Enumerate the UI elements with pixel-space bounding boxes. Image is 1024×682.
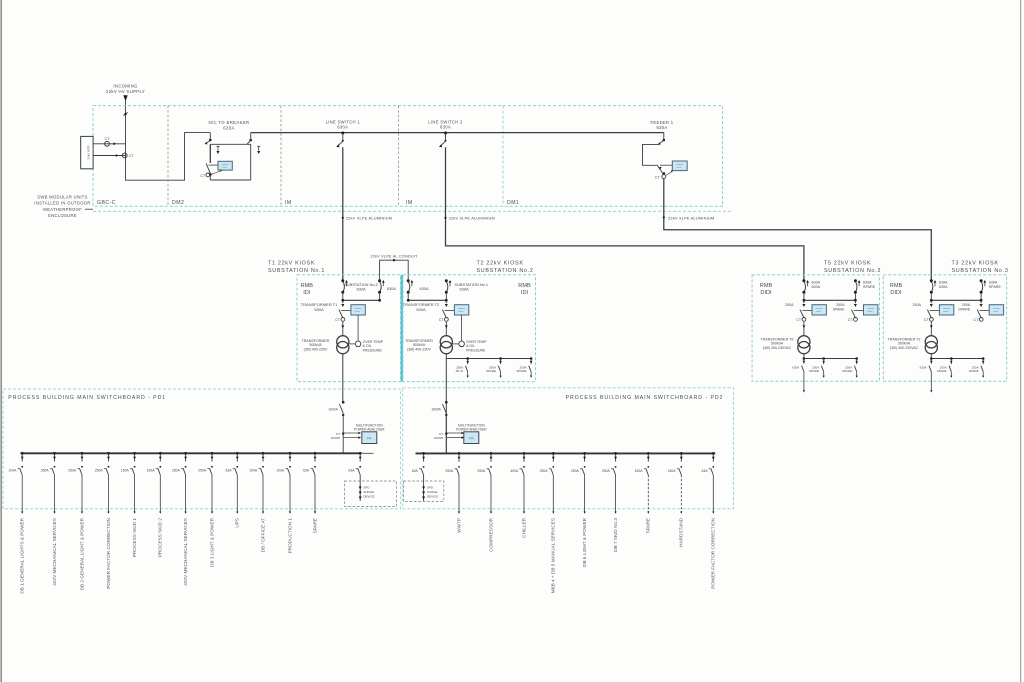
svg-text:PRESSURE: PRESSURE: [363, 348, 383, 352]
metering wire lower: [93, 155, 125, 157]
feeder 1 CT: [663, 172, 666, 175]
svg-text:(3Ø) 400-230VAC: (3Ø) 400-230VAC: [763, 346, 792, 350]
T2 LV feeder 1: [466, 357, 469, 360]
svg-text:INCOMING: INCOMING: [113, 84, 138, 89]
feeder 1 relay: [672, 161, 687, 171]
svg-text:250A: 250A: [172, 469, 181, 473]
svg-text:400A: 400A: [510, 469, 519, 473]
svg-text:1600A: 1600A: [431, 407, 441, 411]
PD2 feeder 7: [647, 452, 650, 455]
svg-text:POWER FACTOR CORRECTION: POWER FACTOR CORRECTION: [711, 518, 716, 589]
PD1 feeder 2: [53, 452, 56, 455]
section divider GBC-C/DM2: [167, 106, 169, 207]
svg-text:DB 3 LIGHT & POWER: DB 3 LIGHT & POWER: [209, 517, 214, 566]
svg-text:IDI: IDI: [303, 290, 311, 296]
svg-text:250A: 250A: [540, 469, 549, 473]
PD1 feeder 1: [21, 452, 24, 455]
svg-text:T3 22kV KIOSK: T3 22kV KIOSK: [952, 260, 999, 266]
svg-text:160A: 160A: [635, 469, 644, 473]
svg-text:SPARE: SPARE: [863, 285, 876, 289]
feeder 1 breaker blade: [657, 165, 664, 175]
svg-text:SPARE: SPARE: [937, 369, 947, 373]
wire to T1 substation: [342, 147, 344, 280]
svg-text:CT: CT: [105, 137, 111, 141]
RMU switchgear enclosure box: [93, 106, 723, 207]
svg-text:SPARE: SPARE: [809, 369, 819, 373]
svg-text:250A: 250A: [41, 469, 50, 473]
svg-text:SPARE: SPARE: [958, 308, 971, 312]
DM2 CT: [206, 173, 210, 177]
PD1 surge protection device: [359, 475, 361, 501]
wire T5 to transformer: [803, 321, 805, 335]
DM2 bottom loop bus: [210, 179, 250, 181]
incoming supply arrow: [123, 95, 127, 101]
svg-text:RMB: RMB: [890, 283, 903, 289]
paper left edge: [0, 0, 2, 682]
T3 switch left: [930, 279, 933, 282]
svg-text:(3Ø) 400-230VAC: (3Ø) 400-230VAC: [890, 346, 919, 350]
svg-text:250A: 250A: [571, 469, 580, 473]
svg-text:DM1: DM1: [507, 200, 519, 206]
svg-text:250A: 250A: [962, 303, 971, 307]
svg-text:1600A: 1600A: [328, 407, 338, 411]
T2 ring switch right: [445, 279, 448, 282]
svg-text:POWER ANALYSER: POWER ANALYSER: [456, 427, 487, 431]
svg-text:63A: 63A: [701, 469, 708, 473]
feeder 1 disconnector: [663, 133, 665, 140]
wire T1-T2 ring conduit: [380, 260, 409, 281]
wire T3 to transformer: [930, 321, 932, 335]
DM2 withdraw arrow left: [216, 145, 219, 147]
svg-text:PROCESS SKID 2: PROCESS SKID 2: [158, 518, 163, 557]
svg-text:630A: 630A: [387, 286, 396, 291]
svg-text:POWER FACTOR CORRECTION: POWER FACTOR CORRECTION: [106, 518, 111, 589]
svg-text:1600/5: 1600/5: [331, 436, 341, 440]
metering unit box: [81, 136, 93, 168]
svg-text:SUBSTATION No.3: SUBSTATION No.3: [824, 268, 881, 274]
svg-text:250A: 250A: [198, 469, 207, 473]
svg-text:100A: 100A: [276, 469, 285, 473]
svg-text:PA: PA: [367, 437, 372, 441]
svg-text:22kV HV SUPPLY: 22kV HV SUPPLY: [106, 89, 145, 94]
PD1 incoming switch: [342, 401, 345, 404]
svg-text:RMB: RMB: [518, 283, 531, 289]
svg-text:250A: 250A: [836, 303, 845, 307]
svg-text:DIDI: DIDI: [890, 290, 902, 296]
svg-text:250A: 250A: [95, 469, 104, 473]
svg-text:UPS: UPS: [235, 518, 240, 528]
T5 LV feeder 2: [822, 357, 825, 360]
PD2 feeder 9: [712, 452, 715, 455]
wire to T3 substation: [664, 179, 932, 281]
T3 LV feeder 3: [982, 357, 985, 360]
T3 LV feeder 2: [950, 357, 953, 360]
PD1 feeder 11: [289, 452, 292, 455]
svg-text:WEATHERPROOF: WEATHERPROOF: [43, 207, 82, 212]
svg-text:4P+N: 4P+N: [456, 369, 464, 373]
DM2 disconnector left: [209, 133, 211, 140]
T2 oil sensor: [459, 341, 465, 347]
svg-text:CT: CT: [335, 318, 341, 322]
svg-text:ENCLOSURE: ENCLOSURE: [48, 213, 77, 218]
svg-text:63A: 63A: [303, 469, 310, 473]
wire T1 to PD1: [342, 354, 344, 402]
svg-text:250A: 250A: [912, 303, 921, 307]
svg-text:160A: 160A: [147, 469, 156, 473]
svg-text:22kV MTR: 22kV MTR: [86, 145, 90, 160]
PD2 main bus: [416, 452, 716, 454]
svg-text:CT: CT: [129, 154, 135, 158]
svg-text:160A: 160A: [668, 469, 677, 473]
line switch 1: [341, 132, 344, 135]
svg-text:630A: 630A: [314, 307, 324, 312]
svg-text:PROCESS BUILDING MAIN SWITCHBO: PROCESS BUILDING MAIN SWITCHBOARD - PD1: [8, 395, 166, 401]
svg-text:100A: 100A: [249, 469, 258, 473]
svg-text:HARDSTAND: HARDSTAND: [679, 517, 684, 546]
T5 substation box: [752, 275, 879, 381]
CT lower: [116, 154, 119, 157]
DM2 disconnector right: [249, 139, 252, 142]
svg-text:SPARE: SPARE: [486, 369, 496, 373]
T5 LV outgoing: [803, 357, 806, 360]
T3 LV outgoing: [930, 357, 933, 360]
PD1 analyser arrows: [342, 432, 344, 434]
svg-text:63A: 63A: [348, 469, 355, 473]
PD2 feeder 2: [490, 452, 493, 455]
svg-text:IM: IM: [406, 200, 413, 206]
svg-text:SWB MODULAR UNITS: SWB MODULAR UNITS: [37, 194, 87, 199]
PD1 feeder 9: [236, 452, 239, 455]
PD1 feeder 6: [159, 452, 162, 455]
PD2 feeder 5: [583, 452, 586, 455]
svg-text:CT: CT: [974, 318, 980, 322]
svg-text:GBC-C: GBC-C: [97, 200, 116, 206]
PD2 switchboard box: [403, 388, 734, 509]
svg-text:DB / OFFICE AT: DB / OFFICE AT: [260, 518, 265, 552]
PD1 power analyser: [362, 432, 377, 444]
T5 LV bus: [803, 354, 805, 359]
transformer T5: [798, 336, 810, 348]
svg-text:22kV XLPE AL CONDUIT: 22kV XLPE AL CONDUIT: [370, 254, 418, 258]
svg-text:630A: 630A: [792, 365, 799, 369]
svg-text:630A: 630A: [812, 285, 821, 289]
DM2 breaker truck: [209, 144, 211, 163]
DM2 withdraw arrow right: [257, 145, 260, 147]
svg-text:160A: 160A: [121, 469, 130, 473]
svg-text:PROCESS SKID 1: PROCESS SKID 1: [132, 518, 137, 557]
svg-text:SPARE: SPARE: [833, 308, 846, 312]
T2 transformer chain: [445, 300, 447, 303]
T1/T2 shared box edge: [401, 275, 403, 382]
T1 oil sensor: [355, 341, 361, 347]
PD1 feeder 5: [133, 452, 136, 455]
T3 switch right: [980, 279, 983, 282]
PD1 feeder 8: [211, 452, 214, 455]
PD1 SPD feeder: [359, 452, 362, 455]
svg-text:630A: 630A: [440, 125, 451, 130]
svg-text:630A: 630A: [223, 125, 234, 130]
svg-text:250A: 250A: [785, 303, 794, 307]
svg-text:IM: IM: [285, 200, 292, 206]
PD2 feeder 3: [523, 452, 526, 455]
svg-text:630A: 630A: [920, 365, 927, 369]
svg-text:DM2: DM2: [172, 200, 184, 206]
svg-text:400V MECHANICAL SERVICES: 400V MECHANICAL SERVICES: [52, 518, 57, 586]
section divider IM/IM: [398, 106, 400, 207]
svg-text:630A: 630A: [337, 125, 348, 130]
PD1 main bus: [21, 452, 362, 454]
T2 ring switch left: [407, 279, 410, 282]
PD2 analyser arrows: [445, 432, 447, 434]
PD1 feeder 4: [107, 452, 110, 455]
svg-text:DEVICE: DEVICE: [427, 495, 438, 499]
svg-text:COMPRESSOR: COMPRESSOR: [488, 517, 493, 551]
T3 transformer chain right spare: [980, 300, 982, 303]
T1 substation box: [297, 275, 401, 382]
svg-text:630A: 630A: [460, 287, 469, 292]
PD2 SPD sub-box: [403, 481, 443, 501]
svg-text:DB 1 GENERAL LIGHTS & POWER: DB 1 GENERAL LIGHTS & POWER: [20, 517, 25, 593]
wire incoming riser: [126, 101, 211, 181]
svg-text:T2 22kV KIOSK: T2 22kV KIOSK: [477, 260, 524, 266]
T2 relay to sensor wire: [461, 315, 463, 341]
svg-text:250A: 250A: [602, 469, 611, 473]
T3 substation box: [883, 275, 1006, 381]
svg-text:T5 22kV KIOSK: T5 22kV KIOSK: [824, 260, 871, 266]
svg-text:250A: 250A: [445, 469, 454, 473]
svg-text:T1 22kV KIOSK: T1 22kV KIOSK: [268, 260, 315, 266]
svg-text:SPARE: SPARE: [646, 518, 651, 534]
T3 LV bus: [930, 354, 932, 359]
svg-text:63A: 63A: [225, 469, 232, 473]
note leader line: [85, 208, 93, 210]
transformer T2: [440, 336, 452, 348]
svg-text:SPARE: SPARE: [842, 369, 852, 373]
CT upper: [105, 141, 110, 146]
PD1 switchboard box: [3, 389, 401, 509]
PD1 SPD sub-box: [345, 481, 397, 507]
svg-text:250A: 250A: [477, 469, 486, 473]
PD2 surge protection device: [423, 475, 425, 501]
T3 transformer chain left: [930, 300, 932, 303]
wire T2 to transformer: [445, 321, 447, 335]
svg-text:DB 7 SKID No.3: DB 7 SKID No.3: [613, 518, 618, 552]
PD1 feeder 7: [184, 452, 187, 455]
svg-text:SPARE: SPARE: [517, 369, 527, 373]
svg-text:63A: 63A: [412, 469, 419, 473]
svg-text:IDI: IDI: [521, 290, 529, 296]
svg-text:SPARE: SPARE: [989, 285, 1002, 289]
T1 ring switch right: [378, 279, 381, 282]
svg-text:CHILLER: CHILLER: [521, 517, 526, 537]
section divider IM/DM1: [502, 106, 504, 207]
T5 transformer chain right spare: [854, 300, 856, 303]
cable joint tick: [123, 112, 127, 115]
svg-text:SUBSTATION No.2: SUBSTATION No.2: [477, 268, 534, 274]
svg-text:POWER ANALYSER: POWER ANALYSER: [354, 427, 385, 431]
T2 substation box: [403, 275, 536, 382]
RMU outer enclosure dashed line: [93, 210, 731, 212]
T5 kiosk bus: [803, 292, 805, 300]
wire T1 to transformer: [342, 321, 344, 335]
svg-text:WWTP: WWTP: [456, 518, 461, 533]
svg-text:SURGE: SURGE: [363, 490, 374, 494]
T5 switch right: [854, 279, 857, 282]
svg-text:PRODUCTION 1: PRODUCTION 1: [287, 518, 292, 554]
svg-text:CT: CT: [796, 318, 802, 322]
svg-text:CT: CT: [924, 318, 930, 322]
svg-text:DB 2 GENERAL LIGHT & POWER: DB 2 GENERAL LIGHT & POWER: [79, 517, 84, 590]
DM2 bypass right side: [250, 144, 252, 180]
PD2 feeder 8: [680, 452, 683, 455]
svg-text:DIDI: DIDI: [760, 290, 772, 296]
PD1 feeder 12: [314, 452, 317, 455]
T1 relay to sensor wire: [357, 315, 359, 341]
T2 LV feeder 3: [530, 357, 533, 360]
svg-text:RMB: RMB: [760, 283, 773, 289]
svg-text:DB 6 LIGHT & POWER: DB 6 LIGHT & POWER: [582, 517, 587, 566]
T3 kiosk bus: [930, 292, 932, 300]
svg-text:SUBSTATION No.1: SUBSTATION No.1: [268, 268, 325, 274]
svg-text:(3Ø) 400-230V: (3Ø) 400-230V: [304, 347, 328, 351]
section divider DM2/IM: [280, 106, 282, 207]
svg-text:CT: CT: [848, 318, 854, 322]
svg-text:22kV XLPE ALUMINIUM: 22kV XLPE ALUMINIUM: [346, 216, 392, 221]
PD2 feeder 1: [458, 452, 461, 455]
metering wire upper: [93, 143, 125, 145]
svg-text:22kV XLPE ALUMINIUM: 22kV XLPE ALUMINIUM: [449, 216, 495, 221]
svg-text:SUBSTATION No.3: SUBSTATION No.3: [952, 268, 1009, 274]
svg-text:630A: 630A: [939, 285, 948, 289]
svg-text:CT: CT: [200, 174, 206, 178]
svg-text:INSTALLED IN OUTDOOR: INSTALLED IN OUTDOOR: [34, 201, 90, 206]
T1 transformer chain: [342, 300, 344, 303]
svg-text:630A: 630A: [657, 125, 668, 130]
svg-text:MBB 4 + DB 5 MANUAL SERVICES: MBB 4 + DB 5 MANUAL SERVICES: [551, 518, 556, 593]
PD2 SPD feeder: [422, 452, 425, 455]
feeder 1 bypass loop: [643, 144, 659, 165]
svg-text:SPD: SPD: [427, 486, 434, 490]
T2 LV bus: [445, 354, 447, 454]
transformer T3: [925, 336, 937, 348]
svg-text:RMB: RMB: [301, 283, 314, 289]
line switch 2: [444, 132, 447, 135]
svg-text:100A: 100A: [8, 469, 17, 473]
svg-text:630A: 630A: [416, 307, 426, 312]
svg-text:630A: 630A: [419, 286, 428, 291]
DM2 loop top bus: [210, 143, 250, 145]
PD1 feeder 10: [262, 452, 265, 455]
T1 ring switch left: [341, 279, 344, 282]
T5 switch left: [802, 279, 805, 282]
wire to T5 substation: [446, 147, 804, 280]
T2 LV feeder 2: [499, 357, 502, 360]
22kV main busbar: [251, 132, 664, 134]
PD2 feeder 4: [552, 452, 555, 455]
T2 kiosk bus: [407, 292, 409, 300]
svg-text:CT: CT: [439, 318, 445, 322]
PD2 feeder 6: [614, 452, 617, 455]
svg-text:630A: 630A: [356, 287, 365, 292]
svg-text:400V MECHANICAL SERVICES: 400V MECHANICAL SERVICES: [183, 518, 188, 586]
T1 kiosk bus: [342, 292, 344, 300]
svg-text:SPARE: SPARE: [969, 369, 979, 373]
svg-text:(3Ø) 400-230V: (3Ø) 400-230V: [407, 347, 431, 351]
paper right edge: [1020, 0, 1022, 682]
DM2 protection relay: [218, 161, 232, 170]
svg-text:PA: PA: [469, 437, 474, 441]
T5 transformer chain left: [803, 300, 805, 303]
svg-text:PRESSURE: PRESSURE: [466, 348, 486, 352]
svg-text:1600/5: 1600/5: [434, 436, 444, 440]
svg-text:SURGE: SURGE: [427, 490, 438, 494]
svg-text:SPARE: SPARE: [312, 518, 317, 534]
PD1 feeder 3: [81, 452, 84, 455]
T5 LV feeder 3: [855, 357, 858, 360]
PD2 power analyser: [464, 432, 479, 444]
svg-text:CT: CT: [655, 176, 661, 180]
svg-text:PROCESS BUILDING MAIN SWITCHBO: PROCESS BUILDING MAIN SWITCHBOARD - PD2: [566, 395, 724, 401]
svg-text:250A: 250A: [68, 469, 77, 473]
PD2 incoming switch: [445, 401, 448, 404]
svg-text:SPD: SPD: [363, 486, 370, 490]
transformer T1: [337, 336, 349, 348]
svg-text:DEVICE: DEVICE: [363, 495, 374, 499]
svg-text:22kV XLPE ALUMINIUM: 22kV XLPE ALUMINIUM: [668, 216, 714, 221]
